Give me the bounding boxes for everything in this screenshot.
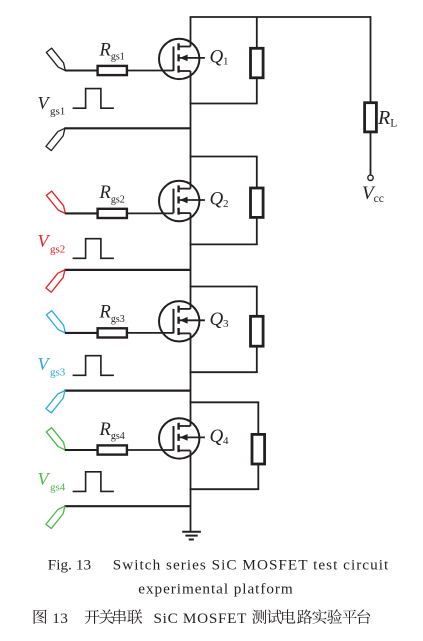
- svg-text:Rgs3: Rgs3: [99, 303, 125, 325]
- wire drain node Q3 to R3 (loop top): [190, 286, 258, 288]
- svg-text:Q: Q: [210, 189, 224, 210]
- svg-text:V: V: [38, 354, 51, 374]
- transistor Q3 (SiC MOSFET): [159, 301, 205, 341]
- svg-text:gs2: gs2: [50, 243, 65, 255]
- wire top rail (Q1 drain to RL): [190, 16, 371, 18]
- connector source probe plug 3: [46, 391, 65, 413]
- resistor R3 (drain-source balancing): [251, 316, 264, 346]
- wire R2 top lead: [256, 157, 258, 189]
- wire R4 top lead: [257, 402, 259, 434]
- svg-text:gs4: gs4: [50, 481, 66, 493]
- wire R2 to source node (loop bottom): [190, 243, 258, 245]
- svg-text:2: 2: [223, 198, 229, 210]
- svg-text:Q: Q: [210, 47, 224, 68]
- wire Q2 source to Q3 drain: [190, 213, 192, 309]
- resistor Rgs4: [98, 445, 127, 454]
- svg-text:Rgs2: Rgs2: [99, 183, 125, 205]
- connector gate probe plug 3: [46, 311, 65, 333]
- wire R1 to source node (loop bottom): [190, 103, 258, 105]
- svg-text:13: 13: [52, 610, 68, 627]
- pulse source waveform Vgs2: [73, 239, 114, 259]
- wire drain stub Q1 from top rail: [190, 17, 192, 47]
- wire gate plug to Rgs1: [65, 69, 98, 71]
- connector source probe plug 2: [46, 270, 65, 292]
- svg-text:Rgs4: Rgs4: [99, 420, 125, 442]
- resistor RL: [365, 103, 377, 132]
- svg-text:Rgs1: Rgs1: [99, 40, 125, 62]
- svg-text:3: 3: [223, 318, 229, 330]
- connector source probe plug 1: [46, 128, 65, 150]
- wire drain node Q2 to R2 (loop top): [190, 156, 258, 158]
- svg-text:Q: Q: [210, 309, 224, 330]
- pulse source waveform Vgs4: [73, 472, 114, 492]
- wire R3 top lead: [256, 287, 258, 317]
- svg-text:V: V: [38, 93, 51, 113]
- wire source node Q1 to probe: [64, 127, 190, 129]
- connector source probe plug 4: [46, 506, 65, 528]
- wire R3 bottom lead: [256, 346, 258, 372]
- wire gate plug to Rgs4: [65, 449, 98, 451]
- svg-text:Fig. 13: Fig. 13: [48, 557, 91, 574]
- wire R1 bottom lead: [256, 78, 258, 104]
- resistor R4 (drain-source balancing): [252, 434, 265, 464]
- svg-text:Switch series SiC MOSFET test: Switch series SiC MOSFET test circuit: [113, 557, 389, 574]
- resistor R1 (drain-source balancing): [251, 48, 264, 78]
- wire RL bottom lead: [370, 132, 372, 175]
- svg-text:RL: RL: [377, 107, 397, 130]
- pulse source waveform Vgs1: [73, 89, 114, 109]
- svg-text:experimental platform: experimental platform: [138, 581, 293, 598]
- wire source node Q2 to probe: [64, 269, 190, 271]
- svg-text:Vcc: Vcc: [362, 183, 384, 205]
- svg-text:V: V: [38, 231, 51, 251]
- resistor Rgs3: [98, 328, 127, 337]
- wire R3 to source node (loop bottom): [190, 371, 258, 373]
- wire R4 to source node (loop bottom): [190, 488, 260, 490]
- transistor Q4 (SiC MOSFET): [159, 418, 205, 458]
- resistor Rgs2: [98, 209, 127, 218]
- wire R1 top lead from top rail: [256, 17, 258, 48]
- svg-text:Q: Q: [210, 426, 224, 447]
- transistor Q1 (SiC MOSFET): [159, 39, 205, 79]
- wire Rgs2 to gate of Q2: [127, 212, 174, 214]
- wire drain node Q4 to R4 (loop top): [190, 401, 260, 403]
- wire gate plug to Rgs3: [65, 332, 98, 334]
- wire Rgs4 to gate of Q4: [127, 449, 174, 451]
- connector gate probe plug 1: [46, 48, 65, 70]
- resistor R2 (drain-source balancing): [251, 188, 264, 217]
- svg-text:SiC MOSFET: SiC MOSFET: [154, 610, 248, 627]
- svg-text:V: V: [38, 469, 51, 489]
- svg-text:gs1: gs1: [50, 106, 65, 118]
- svg-text:gs3: gs3: [50, 366, 66, 378]
- transistor Q2 (SiC MOSFET): [159, 181, 205, 221]
- terminal Vcc: [368, 175, 373, 180]
- wire Rgs1 to gate of Q1: [127, 70, 174, 72]
- wire gate plug to Rgs2: [65, 212, 98, 214]
- svg-text:1: 1: [223, 56, 229, 68]
- wire Q3 source to Q4 drain: [190, 333, 192, 426]
- connector gate probe plug 2: [46, 191, 65, 213]
- ground: [182, 532, 201, 540]
- resistor Rgs1: [98, 66, 127, 75]
- wire Rgs3 to gate of Q3: [127, 332, 174, 334]
- wire Q4 source to ground: [190, 451, 192, 532]
- wire source node Q4 to probe: [64, 505, 190, 507]
- connector gate probe plug 4: [46, 428, 65, 450]
- wire R4 bottom lead: [257, 464, 259, 489]
- wire RL top lead: [370, 16, 372, 103]
- pulse source waveform Vgs3: [73, 356, 114, 376]
- wire source node Q3 to probe: [64, 390, 190, 392]
- svg-text:4: 4: [223, 435, 229, 447]
- caption line 3 (Chinese): [34, 609, 371, 627]
- wire Q1 source to Q2 drain: [190, 71, 192, 189]
- wire R2 bottom lead: [256, 217, 258, 244]
